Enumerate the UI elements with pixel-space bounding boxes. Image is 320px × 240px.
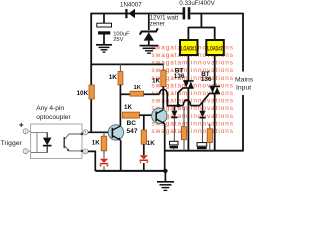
diode D2 gate T1: [171, 106, 177, 142]
wire Q1 emitter down: [120, 140, 122, 171]
svg-text:1K: 1K: [152, 77, 161, 84]
svg-text:547: 547: [127, 128, 138, 135]
wire triac2 main lower: [214, 93, 216, 150]
wire LOAD1 to triac1: [187, 55, 189, 80]
wire right mains upper: [242, 13, 244, 72]
wire Q2 emitter down to ground node: [164, 124, 166, 172]
svg-text:zener: zener: [150, 21, 165, 27]
svg-text:136: 136: [174, 73, 185, 80]
wire load feed vertical: [200, 13, 202, 28]
wire Q1 base from opto: [88, 131, 108, 133]
svg-text:2: 2: [25, 150, 27, 154]
diode D3 gate T2: [199, 102, 205, 142]
opto pin 3: [82, 149, 88, 154]
svg-text:Input: Input: [236, 85, 251, 92]
opto phototransistor: [64, 133, 83, 152]
opto internal LED wiring: [31, 132, 47, 152]
resistor R5 1K horizontal base Q2: [123, 112, 154, 118]
svg-text:4: 4: [85, 131, 87, 135]
transistor Q1 BC547: [108, 125, 123, 141]
svg-text:1K: 1K: [147, 140, 155, 147]
triac T1: [178, 81, 194, 105]
diode D1 1N4007: [126, 9, 135, 18]
svg-text:25V: 25V: [113, 37, 123, 43]
svg-text:BC: BC: [127, 120, 137, 127]
resistor R9 snubber2: [207, 124, 212, 151]
capacitor C4 snubber2: [197, 143, 207, 151]
resistor R4 1K horizontal: [130, 91, 144, 96]
wire A from Q1 collector: [120, 93, 130, 95]
svg-text:1K: 1K: [92, 139, 100, 146]
ground under C2: [96, 45, 112, 52]
capacitor C2 100uF electrolytic: [97, 13, 112, 45]
wire to LOAD2: [214, 27, 216, 40]
wire opto pin3 to rail: [88, 151, 95, 171]
svg-text:1: 1: [25, 130, 27, 134]
svg-text:1K: 1K: [124, 104, 132, 111]
wire left vertical: [90, 13, 92, 86]
hop over Q2 collector: [160, 89, 168, 94]
optocoupler U1 box: [31, 124, 82, 159]
svg-text:LOAD#2: LOAD#2: [207, 46, 223, 52]
LED2 red: [139, 155, 149, 163]
opto pin 4: [82, 130, 88, 135]
transistor Q2 BC547: [152, 108, 167, 124]
wire to LOAD1: [187, 27, 189, 40]
svg-text:1N4007: 1N4007: [120, 1, 142, 8]
wire right mains lower: [242, 95, 244, 151]
opto pin 2: [23, 149, 31, 154]
node gate T1 junction: [176, 104, 180, 108]
wire A to triac2 gate: [191, 105, 200, 107]
resistor R8 snubber1: [181, 107, 186, 151]
wire A to hop1: [144, 93, 160, 95]
opto internal LED: [43, 132, 52, 152]
ground under zener: [140, 46, 159, 54]
svg-text:Mains: Mains: [235, 77, 254, 84]
load box LOAD#1: [180, 40, 198, 55]
opto pin 1: [23, 129, 31, 134]
wire top rail: [91, 13, 183, 15]
capacitor C1 0.33uF/400V: [183, 7, 191, 19]
ground main: [157, 182, 174, 191]
zener ZD1 12V: [140, 13, 158, 45]
wire mid rail: [91, 63, 164, 65]
load box LOAD#2: [206, 40, 224, 55]
svg-text:+: +: [19, 120, 24, 130]
svg-text:optocoupler: optocoupler: [36, 114, 71, 121]
resistor R2 1K top: [118, 64, 123, 126]
svg-text:3: 3: [85, 150, 87, 154]
wire load feed horizontal: [188, 27, 214, 29]
LED1 red: [99, 159, 109, 167]
wire node to ground: [164, 171, 166, 182]
resistor R6 1K base pulldown Q1: [101, 132, 107, 158]
wire LED1 to rail: [103, 166, 105, 171]
triac T2: [200, 86, 220, 105]
svg-text:swagatam innovations: swagatam innovations: [152, 128, 234, 135]
svg-text:0.33uF/400V: 0.33uF/400V: [179, 0, 215, 7]
node ground junction: [163, 169, 167, 173]
svg-text:136: 136: [201, 76, 212, 83]
watermark swagatam innovations: [152, 44, 234, 135]
svg-text:1K: 1K: [134, 85, 142, 91]
wire LED2 to rail: [143, 163, 145, 171]
resistor R1 10K: [89, 85, 94, 99]
wire triac1 main lower: [187, 88, 189, 151]
capacitor C3 snubber1: [170, 141, 179, 150]
svg-text:10K: 10K: [77, 90, 89, 97]
svg-text:1K: 1K: [109, 74, 118, 81]
resistor R7 1K base pulldown Q2: [141, 115, 146, 155]
wire A corner down: [167, 94, 184, 106]
wire left vertical lower: [90, 99, 92, 133]
wire bottom rail: [95, 170, 165, 172]
wire top rail right of cap: [190, 13, 243, 15]
resistor R3 1K collector Q2: [161, 64, 166, 110]
svg-text:Trigger: Trigger: [1, 140, 23, 147]
svg-text:LOAD#1: LOAD#1: [181, 46, 197, 52]
wire LOAD2 to triac2: [214, 55, 216, 86]
hop over triac1 main: [183, 100, 190, 106]
wire mini rail MT1 common: [165, 150, 244, 152]
svg-text:Any 4-pin: Any 4-pin: [36, 105, 64, 112]
